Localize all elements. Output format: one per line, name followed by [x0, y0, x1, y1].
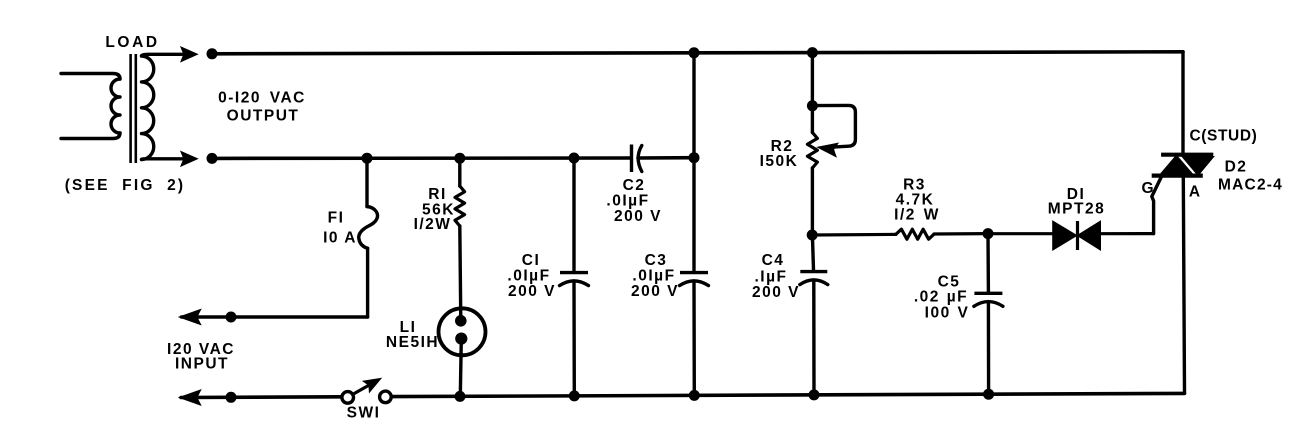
svg-text:.IµF: .IµF: [754, 269, 787, 286]
svg-text:200 V: 200 V: [752, 284, 800, 301]
svg-text:.0IµF: .0IµF: [606, 193, 649, 210]
svg-text:CI: CI: [522, 252, 541, 269]
svg-text:C2: C2: [623, 177, 646, 194]
svg-text:D2: D2: [1225, 159, 1248, 176]
svg-text:200 V: 200 V: [614, 208, 662, 225]
svg-text:I/2 W: I/2 W: [894, 207, 940, 224]
svg-text:RI: RI: [428, 186, 447, 203]
svg-text:.0IµF: .0IµF: [507, 268, 550, 285]
svg-text:A: A: [1189, 184, 1200, 201]
svg-text:I00 V: I00 V: [925, 305, 970, 322]
svg-text:(SEE FIG 2): (SEE FIG 2): [65, 177, 186, 194]
svg-text:I/2W: I/2W: [414, 216, 452, 233]
svg-text:C4: C4: [762, 252, 785, 269]
svg-text:OUTPUT: OUTPUT: [227, 108, 300, 125]
svg-text:MAC2-4: MAC2-4: [1218, 177, 1283, 194]
svg-text:MPT28: MPT28: [1048, 201, 1105, 218]
svg-text:G: G: [1141, 180, 1153, 197]
svg-text:INPUT: INPUT: [175, 356, 229, 373]
svg-text:0-I20 VAC: 0-I20 VAC: [218, 90, 306, 107]
svg-text:.02 µF: .02 µF: [914, 289, 968, 306]
svg-text:I50K: I50K: [760, 153, 799, 170]
svg-text:FI: FI: [328, 210, 345, 227]
svg-text:200 V: 200 V: [508, 283, 556, 300]
svg-text:I0 A: I0 A: [323, 230, 357, 247]
svg-text:C(STUD): C(STUD): [1190, 128, 1258, 145]
svg-text:200 V: 200 V: [631, 283, 679, 300]
svg-text:NE5IH: NE5IH: [386, 334, 439, 351]
svg-text:LOAD: LOAD: [105, 34, 159, 51]
svg-text:.0IµF: .0IµF: [632, 268, 675, 285]
svg-text:SWI: SWI: [347, 405, 381, 422]
svg-text:C3: C3: [645, 252, 668, 269]
